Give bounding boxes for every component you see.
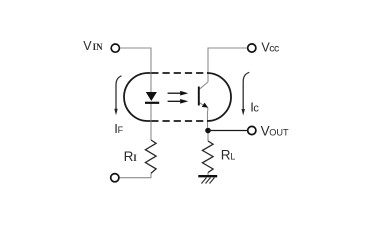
svg-text:I: I [133,153,137,163]
svg-text:V: V [83,39,92,53]
svg-text:OUT: OUT [269,128,289,138]
svg-text:cc: cc [269,43,279,55]
svg-text:F: F [118,125,124,135]
svg-text:R: R [124,149,134,164]
svg-text:IN: IN [93,42,104,52]
svg-text:L: L [230,151,235,161]
svg-text:c: c [253,102,259,114]
